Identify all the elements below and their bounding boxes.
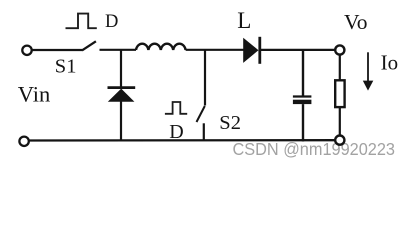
terminal Vin+ (top-left) [22, 46, 31, 55]
switch S1 blade [82, 41, 96, 50]
svg-text:D: D [105, 12, 118, 32]
svg-text:L: L [237, 8, 251, 33]
bottom rail wire [29, 139, 335, 142]
svg-text:Vo: Vo [344, 10, 368, 34]
capacitor branch lower wire [302, 104, 304, 141]
inductor L [136, 44, 186, 50]
wire: inductor to diode [186, 49, 244, 51]
wire: resistor to bottom terminal [339, 107, 341, 136]
terminal Vo (top-right) [335, 45, 344, 54]
svg-text:Vin: Vin [18, 82, 50, 107]
wire top rail: terminal to S1 [32, 49, 82, 51]
terminal (bottom-right) [335, 136, 344, 145]
switch S2 lower wire [203, 123, 205, 141]
wire: S1 to inductor [100, 49, 137, 51]
node/wire: freewheel diode branch upper [120, 49, 122, 87]
pulse waveform (S2 gate) [165, 102, 187, 114]
pulse waveform (S1 gate) [66, 14, 97, 29]
svg-text:S1: S1 [55, 55, 77, 77]
wire: freewheel diode to bottom rail [120, 101, 122, 141]
wire: diode to output terminal [261, 49, 336, 51]
freewheel diode cathode bar [108, 86, 136, 89]
svg-text:Io: Io [381, 50, 399, 74]
resistor R load [335, 80, 344, 107]
switch S2 blade [197, 106, 205, 122]
switch S2 branch: upper wire [204, 49, 206, 106]
capacitor bottom plate [293, 100, 312, 104]
capacitor top plate [293, 95, 312, 97]
output diode cathode bar [258, 37, 261, 64]
Io arrow [367, 52, 369, 82]
capacitor branch upper wire [302, 49, 304, 96]
output diode triangle [243, 38, 258, 63]
freewheel diode triangle [108, 89, 135, 102]
wire: Vo terminal to resistor [339, 55, 341, 81]
svg-text:S2: S2 [219, 112, 241, 134]
terminal Vin- (bottom-left) [19, 137, 28, 146]
svg-text:CSDN @nm19920223: CSDN @nm19920223 [233, 139, 396, 159]
